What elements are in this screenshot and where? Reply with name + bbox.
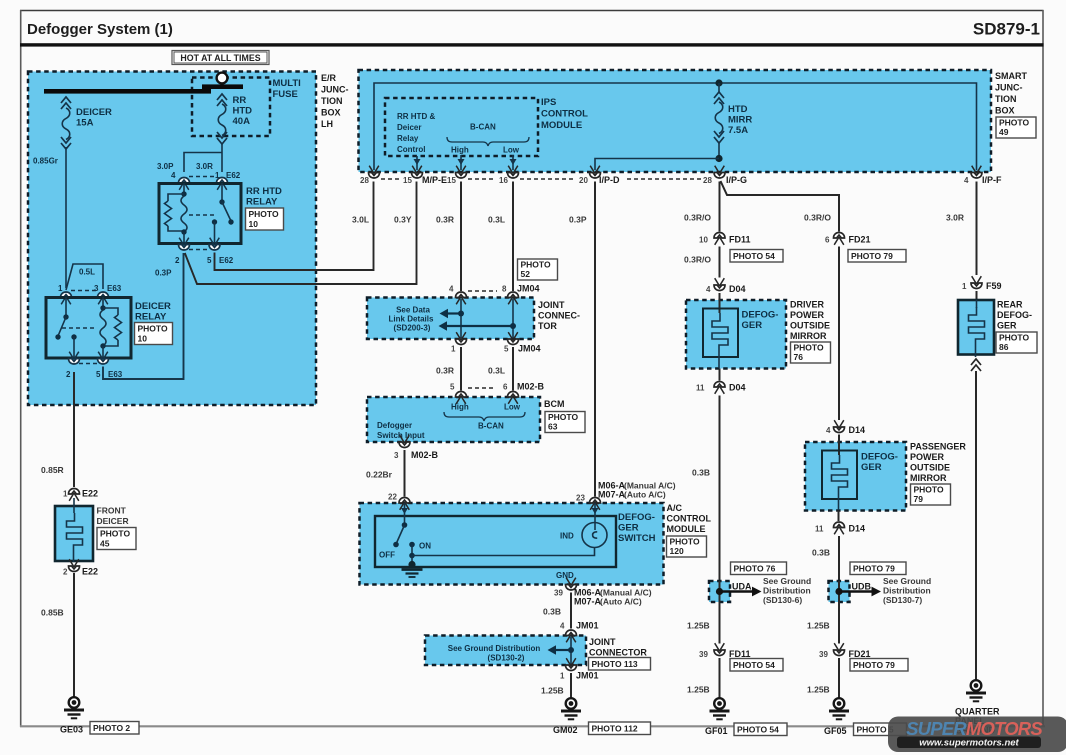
svg-text:Low: Low [503,146,520,155]
wire 3.0R pin4 I/P-F to F59 [946,182,977,276]
svg-text:1: 1 [451,345,456,354]
svg-text:0.85R: 0.85R [41,465,64,475]
svg-text:PHOTO 79: PHOTO 79 [851,251,893,261]
title rule [20,43,1044,46]
svg-text:0.22Br: 0.22Br [366,470,393,480]
svg-text:PHOTO: PHOTO [548,412,578,422]
svg-text:1: 1 [58,284,63,293]
svg-text:CONTROL: CONTROL [541,109,588,120]
svg-text:SMART: SMART [995,71,1027,81]
svg-text:JM04: JM04 [518,344,541,354]
svg-text:23: 23 [576,494,585,503]
photo box: DEICER relay PHOTO 10 [135,323,173,345]
svg-text:PHOTO 79: PHOTO 79 [853,564,895,574]
svg-text:15: 15 [403,176,412,185]
svg-text:RR HTD: RR HTD [246,186,282,197]
E/R junction box LH (blue region) [28,72,316,406]
svg-text:M02-B: M02-B [517,382,545,392]
svg-text:D14: D14 [849,425,866,435]
svg-text:PHOTO: PHOTO [249,209,279,219]
wire 0.22Br [366,450,405,497]
svg-text:PHOTO: PHOTO [999,333,1029,343]
connector M02-B bottom (pin 3) [394,435,439,460]
IPS control module label [541,97,588,131]
svg-text:40A: 40A [233,116,251,127]
svg-text:JM01: JM01 [576,671,599,681]
svg-text:I/P-D: I/P-D [599,175,620,185]
svg-text:JOINT: JOINT [589,637,616,647]
svg-text:1.25B: 1.25B [807,685,830,695]
svg-text:5: 5 [450,383,455,392]
svg-text:ON: ON [419,542,431,551]
svg-text:GF01: GF01 [705,726,728,736]
connector F59 (pin 1) [962,276,1002,301]
wire to quarter panel ground [975,371,977,681]
svg-text:UDB: UDB [852,582,872,592]
svg-text:PHOTO 54: PHOTO 54 [733,251,775,261]
svg-text:MULTI: MULTI [273,78,301,89]
svg-text:D14: D14 [849,524,866,534]
svg-text:0.3P: 0.3P [155,269,172,278]
svg-text:RELAY: RELAY [246,197,278,208]
GND label and pin 39 [554,571,652,607]
driver mirror label [790,300,830,342]
svg-text:E62: E62 [226,171,241,180]
photo box: FD21 lower PHOTO 79 [850,659,908,672]
rear defogger [958,300,1032,358]
A/C control module (blue box) [360,498,664,585]
svg-text:PHOTO: PHOTO [914,485,944,495]
connector D04 (pin 11) [696,382,746,394]
wire 0.3L B-CAN low [488,182,513,292]
ground GE03 [64,697,84,718]
joint connector JM01 label [589,637,647,658]
relay DEICER [46,297,171,358]
svg-text:OFF: OFF [379,551,395,560]
IPS output arrows to pins [414,155,517,170]
svg-text:JUNC-: JUNC- [321,85,349,95]
UDB see ground distribution note [883,576,931,605]
wire 1.25B to GM02 [541,673,571,698]
svg-text:CONNECTOR: CONNECTOR [589,648,647,658]
svg-text:PHOTO 54: PHOTO 54 [737,725,779,735]
svg-text:M/P-E: M/P-E [422,175,447,185]
indicator lamp IND [560,503,607,548]
svg-text:4: 4 [964,176,969,185]
node UDA ground joint [709,581,762,602]
photo box: JM01 PHOTO 113 [589,658,651,671]
svg-text:0.3P: 0.3P [569,215,587,225]
wire 0.3Y: E62 pin2 diag to SJB pin15 [185,182,417,285]
wire 1.25B FD21 to GF05 [807,658,839,698]
svg-text:0.3R: 0.3R [436,215,454,225]
svg-text:A/C: A/C [667,503,683,513]
svg-text:TOR: TOR [538,321,557,331]
connector JM01 top (pin 4) [560,621,599,631]
svg-text:BCM: BCM [544,399,565,409]
svg-text:(SD130-6): (SD130-6) [763,595,802,605]
svg-text:63: 63 [548,422,558,432]
svg-text:SD879-1: SD879-1 [973,20,1040,39]
wire 1.25B UDA to FD11 [687,602,720,644]
svg-text:POWER: POWER [790,310,825,320]
ground GF05 [829,698,849,719]
svg-text:OUTSIDE: OUTSIDE [790,321,830,331]
svg-text:3: 3 [394,451,399,460]
svg-text:MODULE: MODULE [541,120,582,131]
svg-text:POWER: POWER [910,452,945,462]
svg-text:6: 6 [825,236,830,245]
passenger power outside mirror defogger (blue box) [805,435,906,511]
svg-text:76: 76 [794,352,804,362]
svg-text:20: 20 [579,176,588,185]
photo box: RR HTD relay PHOTO 10 [246,208,284,230]
svg-text:FUSE: FUSE [273,89,298,100]
svg-text:DEICER: DEICER [135,301,171,312]
smart junction box label [995,71,1027,116]
svg-text:0.85B: 0.85B [41,608,64,618]
svg-text:GER: GER [618,523,639,534]
svg-text:0.85Gr: 0.85Gr [33,157,58,166]
svg-text:High: High [451,403,469,412]
HOT AT ALL TIMES label [172,51,269,65]
wire 0.3B D04 to UDA [692,369,720,582]
svg-text:11: 11 [815,525,824,534]
svg-text:Link Details: Link Details [389,315,434,324]
svg-text:2: 2 [63,568,68,577]
svg-text:IND: IND [560,532,574,541]
wire 1.25B UDB to FD21 [807,602,839,644]
connector E22 top (pin 1) [63,489,98,501]
wire 0.3R/O pin28 I/P-G down [684,182,720,232]
svg-text:0.3L: 0.3L [488,366,505,376]
svg-text:(SD200-3): (SD200-3) [394,324,431,333]
svg-text:M02-B: M02-B [411,450,439,460]
connector JM01 bottom (pin 1) [560,658,599,680]
svg-text:6: 6 [503,383,508,392]
svg-text:High: High [451,146,469,155]
SJB pin row dashes [381,178,701,180]
svg-text:4: 4 [826,426,831,435]
connector pins 22 / 23 into A/C module [388,493,585,503]
photo box: UDA PHOTO 76 [731,562,787,575]
svg-text:Relay: Relay [397,134,419,143]
wire branch to FD21 column [721,181,840,232]
A/C control module label [667,503,712,534]
svg-text:GER: GER [861,462,882,473]
svg-text:B-CAN: B-CAN [478,422,504,431]
svg-text:JM04: JM04 [517,284,540,294]
defogger switch label [618,512,656,544]
svg-text:JOINT: JOINT [538,300,565,310]
joint connector JM01 (blue box) [425,630,586,665]
connector FD11 (pin 10) [699,233,751,245]
svg-text:2: 2 [66,370,71,379]
svg-text:LH: LH [321,119,333,129]
svg-text:15: 15 [447,176,456,185]
watermark supermotors [888,717,1066,753]
wire 0.3P: E62 pin2 down to E63 pin5 [103,253,184,379]
ground label GF01 / PHOTO 54 [705,723,787,736]
relay RR HTD [159,183,282,244]
svg-text:0.3B: 0.3B [692,468,710,478]
ground GF01 [710,698,730,719]
svg-text:45: 45 [100,539,110,549]
svg-text:PHOTO: PHOTO [521,260,551,270]
svg-text:GE03: GE03 [60,725,83,735]
svg-text:E22: E22 [82,489,98,499]
svg-text:GER: GER [742,320,763,331]
svg-text:15A: 15A [76,118,94,129]
svg-text:10: 10 [699,236,708,245]
svg-text:E22: E22 [82,567,98,577]
svg-text:3.0P: 3.0P [157,162,174,171]
svg-text:DEICER: DEICER [76,107,112,118]
photo box: BCM PHOTO 63 [545,412,585,433]
wire 0.3R/O FD11 to D04 [684,247,720,278]
svg-text:5: 5 [207,256,212,265]
svg-text:Defogger: Defogger [377,421,412,430]
wire 0.85R: E63 pin2 to E22 [41,372,74,487]
connector D04 (pin 4) [706,278,746,294]
svg-text:E63: E63 [107,284,122,293]
svg-text:120: 120 [670,546,684,556]
svg-text:TION: TION [321,96,343,106]
svg-text:E63: E63 [108,370,123,379]
connector D14 (pin 4) [826,247,865,436]
svg-text:MIRROR: MIRROR [790,331,827,341]
svg-text:(Auto A/C): (Auto A/C) [600,597,642,607]
connector M02-B top (pins 5, 6) [450,382,545,392]
joint connector JM04 label [538,300,580,331]
svg-text:HOT AT ALL TIMES: HOT AT ALL TIMES [180,53,260,63]
svg-text:BOX: BOX [995,106,1015,116]
svg-text:DRIVER: DRIVER [790,300,825,310]
svg-text:0.3R/O: 0.3R/O [684,255,711,265]
multi fuse box [192,78,301,137]
svg-text:DEFOG-: DEFOG- [618,512,655,523]
ground label GM02 / PHOTO 112 [553,722,651,735]
svg-text:(SD130-7): (SD130-7) [883,595,922,605]
svg-text:5: 5 [504,345,509,354]
svg-text:1.25B: 1.25B [541,686,564,696]
connector E22 bottom (pin 2) [63,559,98,576]
connector FD21 (pin 6) [825,233,871,245]
node: multifuse feed circle [217,73,228,84]
node: HTD MIRR fuse top junction [715,79,722,86]
quarter panel ground label [955,707,1000,736]
svg-text:RR HTD &: RR HTD & [397,112,435,121]
photo box: front deicer PHOTO 45 [97,528,136,550]
svg-text:4: 4 [449,285,454,294]
svg-text:DEICER: DEICER [97,516,129,526]
svg-text:SWITCH: SWITCH [618,533,656,544]
svg-text:FD21: FD21 [849,649,871,659]
wire 0.3R B-CAN high [436,182,461,292]
svg-text:See Ground: See Ground [883,576,931,586]
SJB pin row labels [360,175,1002,185]
svg-text:IPS: IPS [541,97,556,108]
svg-text:Low: Low [504,403,521,412]
front deicer [55,498,129,562]
svg-text:I/P-G: I/P-G [726,175,747,185]
photo box: FD11 PHOTO 54 [730,250,783,263]
svg-text:MIRROR: MIRROR [910,473,947,483]
svg-text:0.3B: 0.3B [543,607,561,617]
svg-text:MIRR: MIRR [728,115,752,126]
svg-text:PHOTO 2: PHOTO 2 [93,723,130,733]
IPS control module inner box [385,98,538,156]
svg-text:16: 16 [499,176,508,185]
svg-text:52: 52 [521,269,531,279]
wire 3.0L: E62 pin5 to SJB pin28 [215,182,374,271]
svg-text:0.5L: 0.5L [79,268,95,277]
svg-text:GM02: GM02 [553,725,578,735]
svg-text:28: 28 [360,176,369,185]
wire fuse to pin 20 [595,159,719,171]
svg-text:B-CAN: B-CAN [470,123,496,132]
svg-text:PHOTO 112: PHOTO 112 [592,724,638,734]
svg-text:7.5A: 7.5A [728,125,748,136]
svg-text:0.3R: 0.3R [436,366,454,376]
svg-text:3.0R: 3.0R [196,162,213,171]
svg-text:TION: TION [995,94,1017,104]
svg-text:86: 86 [999,342,1009,352]
svg-text:PHOTO: PHOTO [100,529,130,539]
svg-text:REAR: REAR [997,300,1023,310]
joint connector JM04 (blue box) [367,292,534,339]
svg-text:0.3R/O: 0.3R/O [684,213,711,223]
rear defogger continuation chevrons [971,359,981,371]
svg-text:RR: RR [233,95,247,106]
svg-text:28: 28 [703,176,712,185]
connector E62 top (pins 4, 1) [171,171,241,190]
svg-text:3.0L: 3.0L [352,215,369,225]
svg-text:(SD130-2): (SD130-2) [488,654,525,663]
svg-text:49: 49 [999,127,1009,137]
svg-text:QUARTER: QUARTER [955,707,1000,717]
photo box: UDB PHOTO 79 [850,562,906,575]
svg-text:BOX: BOX [321,108,341,118]
svg-text:1.25B: 1.25B [687,685,710,695]
connector E63 top (pins 1, 3) with 0.5L loop [58,264,122,304]
svg-text:DEFOG-: DEFOG- [742,310,779,321]
photo box: rear defogger PHOTO 86 [996,332,1037,353]
svg-text:I/P-F: I/P-F [982,175,1002,185]
svg-text:4: 4 [171,171,176,180]
svg-text:GF05: GF05 [824,726,847,736]
svg-text:Deicer: Deicer [397,123,421,132]
svg-text:(Auto A/C): (Auto A/C) [624,490,666,500]
svg-text:PHOTO: PHOTO [794,343,824,353]
ground quarter panel [966,680,986,701]
svg-text:4: 4 [706,285,711,294]
photo box: SJB PHOTO 49 [996,117,1036,138]
svg-text:3.0R: 3.0R [946,213,964,223]
wire 0.3P pin20 to A/C pin23 [569,182,595,497]
photo box: FD11 lower PHOTO 54 [730,659,783,672]
svg-text:1.25B: 1.25B [807,621,830,631]
svg-text:GER: GER [997,321,1017,331]
svg-text:D04: D04 [729,284,746,294]
svg-text:22: 22 [388,493,397,502]
ground label GE03 / PHOTO 2 [60,722,139,735]
svg-text:FD21: FD21 [849,235,871,245]
wire 0.3B D14 to UDB [812,511,839,582]
svg-text:See Data: See Data [396,306,430,315]
svg-text:GND: GND [556,571,574,580]
svg-text:PHOTO: PHOTO [999,118,1029,128]
switch internal ground [402,556,423,578]
SJB pin row chevrons [369,166,983,178]
wire 0.3R JM04 to BCM [436,347,461,391]
svg-text:UDA: UDA [732,582,752,592]
ground GM02 [561,698,581,719]
wire 0.85Gr [33,147,66,288]
svg-text:0.3R/O: 0.3R/O [804,213,831,223]
svg-text:Defogger System (1): Defogger System (1) [27,21,173,38]
svg-text:0.3Y: 0.3Y [394,215,412,225]
svg-text:HTD: HTD [233,106,253,117]
svg-text:MODULE: MODULE [667,524,706,534]
svg-text:PHOTO 76: PHOTO 76 [734,564,776,574]
svg-text:Control: Control [397,145,425,154]
fuse DEICER 15A [61,97,112,149]
svg-text:0.3L: 0.3L [488,215,505,225]
connector FD11 (pin 39) [699,643,751,659]
svg-text:PHOTO 54: PHOTO 54 [733,660,775,670]
photo box: JM04 PHOTO 52 [518,259,558,280]
svg-text:PHOTO: PHOTO [670,537,700,547]
svg-text:8: 8 [502,285,507,294]
bus bar wire [44,84,243,93]
defogger switch inner box [375,516,616,567]
svg-text:E62: E62 [219,256,234,265]
svg-text:Distribution: Distribution [763,586,811,596]
svg-text:CONTROL: CONTROL [667,514,712,524]
svg-text:1: 1 [63,490,68,499]
driver power outside mirror defogger (blue box) [686,293,786,369]
svg-text:JUNC-: JUNC- [995,83,1023,93]
node UDB ground joint [829,581,882,602]
svg-text:1: 1 [560,672,565,681]
passenger mirror label [910,442,966,484]
defogger switch contacts [379,503,431,560]
A/C pin 23 labels M06-A/M07-A [598,481,676,500]
photo box: FD21 PHOTO 79 [848,250,906,263]
svg-text:HTD: HTD [728,104,748,115]
svg-text:www.supermotors.net: www.supermotors.net [919,738,1019,749]
node: HTD MIRR fuse bottom junction [715,155,722,162]
svg-text:PHOTO 79: PHOTO 79 [853,660,895,670]
photo box: driver mirror PHOTO 76 [791,342,831,363]
connector FD21 (pin 39) [819,643,871,659]
switch to lamp wire [409,547,594,558]
svg-text:E/R: E/R [321,73,337,83]
svg-text:CONNEC-: CONNEC- [538,311,580,321]
svg-text:1.25B: 1.25B [687,621,710,631]
BCM (blue box) [367,392,540,442]
smart junction box (blue region) [359,70,992,172]
svg-text:F59: F59 [986,281,1002,291]
svg-text:DEFOG-: DEFOG- [861,452,898,463]
svg-text:FD11: FD11 [729,235,751,245]
svg-text:Distribution: Distribution [883,586,931,596]
fuse HTD MIRR 7.5A [714,83,752,158]
wire 0.3L JM04 to BCM [488,347,513,391]
photo box: passenger mirror PHOTO 79 [911,484,951,505]
E/R junction box label [321,73,349,129]
